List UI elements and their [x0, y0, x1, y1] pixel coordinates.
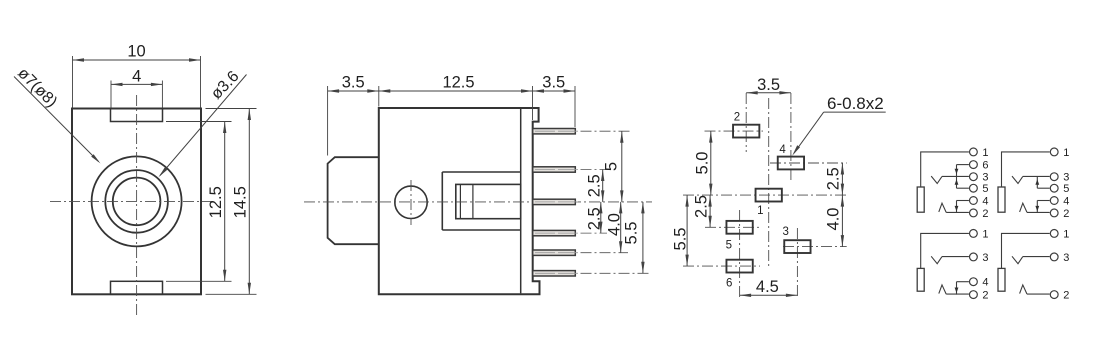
svg-text:3: 3: [1063, 252, 1069, 264]
wire caret to terminal 2: [946, 211, 969, 213]
svg-text:5: 5: [726, 239, 732, 251]
svg-text:3: 3: [782, 226, 788, 238]
svg-text:3.5: 3.5: [342, 74, 365, 92]
switch link bar: [956, 282, 958, 295]
leader phi7(phi8) to outer circle: [14, 77, 99, 162]
dimension 2.5 (pin3 to pin4): [600, 202, 602, 233]
svg-text:14.5: 14.5: [232, 186, 250, 218]
svg-text:3: 3: [982, 252, 988, 264]
front body outline: [72, 109, 201, 295]
outer circle (mount barrel): [92, 156, 182, 246]
terminal 4 circle: [970, 278, 978, 286]
svg-text:2.5: 2.5: [585, 207, 603, 230]
wire sleeve to terminal 1: [1002, 152, 1050, 187]
wire tick to terminal 3: [942, 175, 969, 177]
pin 5 midline: [535, 252, 581, 254]
terminal 2 circle: [1050, 291, 1058, 299]
pad row centerline (pad 4): [770, 162, 847, 164]
side circle vertical centerline: [410, 180, 412, 225]
pin 3 midline: [535, 201, 581, 203]
terminal 2 circle: [1050, 209, 1058, 217]
pad 6: [726, 260, 752, 273]
pad row centerline (pad 5): [705, 226, 760, 228]
svg-text:2: 2: [982, 208, 988, 220]
pin 4 midline: [535, 232, 581, 234]
switch arrow: [1035, 179, 1039, 185]
pin 2 midline: [535, 169, 581, 171]
pin 1 (side view): [533, 129, 576, 134]
switch arrow: [955, 288, 959, 294]
side slot bottom edge: [442, 229, 520, 231]
wire bar to terminal 5: [1037, 187, 1049, 189]
pad row centerline (pad 2): [705, 130, 764, 132]
svg-text:5.0: 5.0: [694, 152, 712, 175]
dimension 3.5 (pad2 to pad4 horizontal): [746, 92, 791, 94]
left barrel (plug bushing): [328, 157, 379, 244]
jack sleeve symbol: [917, 187, 924, 212]
ring contact caret: [1020, 203, 1027, 212]
tip contact tick: [931, 256, 942, 263]
switch link bar: [1036, 177, 1038, 189]
terminal 1 circle: [970, 230, 978, 238]
svg-text:2.5: 2.5: [693, 195, 711, 218]
pin 2 extension line: [581, 169, 611, 171]
tip contact tick: [1012, 176, 1023, 183]
svg-text:2.5: 2.5: [825, 167, 843, 190]
dimension 14.5 (full height): [206, 108, 257, 110]
terminal 3 circle: [970, 173, 978, 181]
pin 1 midline: [535, 130, 581, 132]
pad 2: [733, 125, 759, 138]
dimension 3.5 (barrel length): [327, 86, 329, 156]
dimension 2.5 (pin2 to pin3): [602, 170, 604, 202]
svg-text:4.0: 4.0: [605, 213, 623, 236]
svg-text:1: 1: [757, 205, 763, 217]
wire caret to terminal 2: [946, 293, 969, 295]
front bottom notch: [111, 281, 163, 294]
pin 6 (side view): [533, 271, 576, 276]
leader phi3.6 to inner circle: [160, 75, 247, 176]
svg-text:4.0: 4.0: [825, 208, 843, 231]
contact tube outline: [456, 184, 521, 218]
wire bar to terminal 4: [1037, 200, 1049, 202]
dimension 12.5 (inner height): [166, 121, 232, 123]
svg-text:1: 1: [982, 147, 988, 159]
switch arrow: [1035, 206, 1039, 212]
svg-text:6-0.8x2: 6-0.8x2: [827, 94, 884, 113]
ring contact caret: [939, 203, 946, 212]
svg-text:6: 6: [982, 160, 988, 172]
terminal 3 circle: [970, 253, 978, 261]
svg-text:4.5: 4.5: [756, 278, 779, 296]
terminal 2 circle: [970, 209, 978, 217]
pad row centerline (pad 6): [683, 265, 760, 267]
pin 4 extension line: [581, 232, 608, 234]
terminal 1 circle: [1050, 148, 1058, 156]
jack sleeve symbol: [917, 268, 924, 291]
pad column centerline (pad 3): [796, 228, 798, 298]
svg-text:1: 1: [1063, 147, 1069, 159]
tip contact tick: [1012, 256, 1023, 263]
pad 3: [784, 240, 810, 253]
pin 5 (side view): [533, 250, 576, 255]
pin 6 extension line: [581, 272, 651, 274]
terminal 3 circle: [1050, 253, 1058, 261]
tube inner line 2: [472, 184, 474, 218]
svg-text:2: 2: [982, 290, 988, 302]
svg-text:6: 6: [726, 278, 732, 290]
side body outline with right flange steps: [379, 108, 540, 294]
terminal 5 circle: [970, 184, 978, 192]
switch link bar: [956, 201, 958, 213]
svg-text:12.5: 12.5: [207, 186, 225, 218]
inner circle (3.6mm hole): [113, 178, 161, 226]
svg-text:5: 5: [982, 183, 988, 195]
svg-text:4: 4: [982, 277, 988, 289]
switch link bar: [1036, 201, 1038, 213]
pin 1 extension line: [581, 130, 631, 132]
dimension 4 (notch width): [110, 81, 112, 108]
pad row centerline (pad 3): [783, 246, 847, 248]
front vertical centerline: [136, 95, 138, 315]
internal body/flange boundary line: [520, 109, 522, 294]
footprint horizontal centerline (pad 1 row): [683, 194, 849, 196]
wire sleeve to terminal 1: [921, 233, 969, 268]
svg-text:10: 10: [127, 43, 145, 61]
wire bar to terminal 5: [957, 187, 969, 189]
svg-text:2: 2: [734, 111, 740, 123]
svg-text:3: 3: [982, 172, 988, 184]
wire tick to terminal 3: [1023, 256, 1050, 258]
svg-text:5: 5: [603, 162, 621, 171]
pad 4: [778, 157, 804, 170]
footprint vertical centerline (pad 1 column): [768, 98, 770, 268]
wire bar to terminal 4: [957, 281, 969, 283]
front top notch: [111, 109, 163, 122]
dimension 5 (pin1 to pin3): [621, 131, 623, 202]
ring contact caret: [1020, 285, 1027, 294]
terminal 4 circle: [970, 197, 978, 205]
pin 5 extension line: [581, 252, 629, 254]
wire tick to terminal 3: [1023, 175, 1050, 177]
side horizontal centerline: [304, 201, 652, 203]
pad column centerline (pad 4): [790, 93, 792, 181]
dimension 4.0 (pin3 to pin5): [620, 202, 622, 253]
side circle (pin hole): [395, 186, 427, 218]
pad 1: [756, 189, 782, 202]
svg-text:1: 1: [982, 228, 988, 240]
svg-text:5.5: 5.5: [672, 228, 690, 251]
switch link bar: [956, 165, 958, 189]
dimension 2.5 (pad4 to pad1 right): [841, 163, 843, 195]
dimension 5.5 (pad1 to pad6): [686, 195, 688, 266]
svg-text:4: 4: [982, 195, 988, 207]
dimension 3.5 (pin length): [574, 86, 576, 127]
middle circle: [105, 170, 168, 233]
svg-text:5: 5: [1063, 183, 1069, 195]
wire bar to terminal 6: [957, 164, 969, 166]
tip contact tick: [931, 176, 942, 183]
terminal 1 circle: [970, 148, 978, 156]
dimension 2.5 (pad1 to pad5): [709, 195, 711, 227]
wire sleeve to terminal 1: [921, 152, 969, 187]
switch arrow: [955, 206, 959, 212]
pad column centerline (pads 5 and 6): [739, 210, 741, 298]
pin 2 (side view): [533, 167, 576, 172]
dimension 5.5 (pin3 to pin6): [642, 202, 644, 273]
svg-text:2.5: 2.5: [585, 174, 603, 197]
svg-text:3.5: 3.5: [542, 74, 565, 92]
svg-text:4: 4: [132, 68, 141, 86]
dimension 12.5 (body width): [378, 86, 380, 107]
jack sleeve symbol: [998, 268, 1005, 291]
svg-text:5.5: 5.5: [622, 222, 640, 245]
ring contact caret: [939, 285, 946, 294]
terminal 4 circle: [1050, 197, 1058, 205]
switch arrow: [955, 169, 959, 175]
dimension 4.0 (pad1 to pad3 right): [841, 195, 843, 247]
wire bar to terminal 4: [957, 200, 969, 202]
wire caret to terminal 2: [1027, 293, 1050, 295]
svg-text:4: 4: [1063, 195, 1069, 207]
svg-text:12.5: 12.5: [442, 74, 474, 92]
terminal 1 circle: [1050, 230, 1058, 238]
terminal 6 circle: [970, 161, 978, 169]
pad 5: [726, 221, 752, 234]
wire tick to terminal 3: [942, 256, 969, 258]
svg-text:2: 2: [1063, 290, 1069, 302]
svg-text:4: 4: [779, 144, 786, 156]
pin 3 (side view): [533, 199, 576, 204]
dimension 10 (top width): [72, 56, 74, 108]
svg-text:2: 2: [1063, 208, 1069, 220]
dimension 5.0 (pad2 to pad1 vertical): [710, 131, 712, 195]
svg-text:1: 1: [1063, 228, 1069, 240]
front horizontal centerline: [50, 200, 214, 202]
terminal 2 circle: [970, 291, 978, 299]
pin 6 midline: [535, 272, 581, 274]
wire caret to terminal 2: [1027, 211, 1050, 213]
svg-text:3: 3: [1063, 172, 1069, 184]
jack sleeve symbol: [998, 187, 1005, 212]
terminal 3 circle: [1050, 173, 1058, 181]
tube inner line 1: [459, 184, 461, 218]
pad column centerline (pad 2): [745, 93, 747, 152]
terminal 5 circle: [1050, 184, 1058, 192]
side slot left edge: [441, 172, 443, 230]
svg-text:3.5: 3.5: [757, 76, 780, 94]
side slot top edge: [442, 171, 520, 173]
wire sleeve to terminal 1: [1002, 233, 1050, 268]
pin 4 (side view): [533, 230, 576, 235]
dimension 4.5 (pad6 to pad3 bottom): [740, 294, 798, 296]
switch arrow: [955, 179, 959, 185]
